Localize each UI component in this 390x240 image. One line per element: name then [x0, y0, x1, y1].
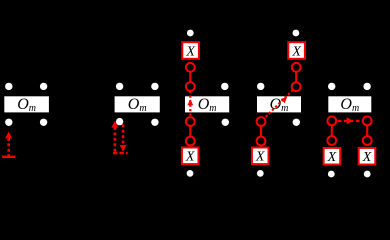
- panel 5: operator circle left-1 (bottom-left leg): [327, 117, 336, 126]
- panel 4: link upper circles: [295, 67, 297, 86]
- panel 4: qubit dot above top X: [293, 30, 300, 37]
- panel 1: measurement box O_m: [4, 96, 49, 114]
- panel 3: dashed propagation line through box (vertical): [189, 91, 191, 117]
- panel 4: operator circle lower-2: [257, 137, 266, 146]
- panel 3: operator circle lower-2: [186, 137, 195, 146]
- panel 5: dashed horizontal propagation line: [332, 120, 367, 122]
- panel 5: link left circles: [331, 121, 333, 141]
- panel 2: qubit dot bottom-right: [151, 119, 158, 126]
- panel 2: reflected arrowhead (down): [120, 145, 127, 152]
- panel 3: qubit dot below bottom X: [187, 170, 194, 177]
- panel 3: link lower circles: [189, 122, 191, 142]
- svg-text:X: X: [185, 44, 195, 59]
- panel 3: operator circle lower-1 (bottom-left leg): [186, 117, 195, 126]
- panel 5: qubit dot below right X: [364, 171, 371, 178]
- panel 4: operator circle lower-1 (bottom-left leg): [257, 117, 266, 126]
- panel 2: incoming arrowhead (up): [111, 121, 118, 128]
- panel 2: qubit dot bottom-left: [116, 118, 123, 125]
- panel 3: operator circle upper-2: [186, 63, 195, 72]
- panel 2: measurement box O_m: [115, 96, 160, 114]
- panel 5: link right circles: [366, 121, 368, 141]
- panel 5: operator circle right-2: [363, 136, 372, 145]
- panel 5: Pauli X box bottom-left: [324, 148, 341, 165]
- panel 5: operator circle left-2: [327, 136, 336, 145]
- svg-text:X: X: [362, 150, 372, 165]
- panel 4: Pauli X box bottom-left: [252, 148, 269, 165]
- panel 5: qubit dot top-right: [363, 83, 370, 90]
- panel 4: Pauli X box top-right: [288, 42, 305, 59]
- panel 4: qubit dot below bottom X: [257, 170, 264, 177]
- panel 4: qubit dot top-left: [257, 83, 264, 90]
- panel 4: link lower circles: [260, 122, 262, 142]
- panel 2: qubit dot top-right: [151, 83, 158, 90]
- panel 1: error arrow base bar: [2, 156, 15, 158]
- panel 5: propagation arrowhead (right): [347, 117, 354, 124]
- panel 3: qubit dot above top X: [187, 30, 194, 37]
- panel 5: qubit dot below left X: [328, 171, 335, 178]
- panel 4: dashed diagonal propagation line: [261, 87, 296, 122]
- panel 4: operator circle upper-1 (top-right leg): [292, 82, 301, 91]
- panel 2: reflected arrow shaft (dashed, down): [122, 124, 125, 145]
- panel 3: link upper circles: [189, 67, 191, 86]
- panel 3: operator circle upper-1 (top-left leg): [186, 82, 195, 91]
- panel 3: measurement box O_m: [185, 96, 229, 114]
- svg-text:X: X: [327, 150, 337, 165]
- panel 5: qubit dot top-left: [328, 83, 335, 90]
- panel 1: incoming error arrow shaft (dashed): [7, 138, 10, 156]
- panel 4: measurement box O_m: [257, 96, 301, 114]
- panel 1: qubit dot bottom-left: [5, 119, 12, 126]
- panel 5: measurement box O_m: [328, 96, 371, 114]
- panel 4: qubit dot bottom-right: [293, 119, 300, 126]
- panel 1: incoming error arrowhead (up): [5, 132, 12, 139]
- svg-text:X: X: [255, 150, 265, 165]
- panel 2: qubit dot top-left: [116, 83, 123, 90]
- panel 3: Pauli X box top: [182, 42, 199, 59]
- svg-text:X: X: [291, 44, 301, 59]
- panel 1: qubit dot bottom-right: [40, 119, 47, 126]
- panel 4: operator circle upper-2: [292, 63, 301, 72]
- panel 5: operator circle right-1 (bottom-right leg): [363, 117, 372, 126]
- svg-text:X: X: [185, 150, 195, 165]
- panel 4: propagation arrowhead (up-right, on diagonal): [281, 97, 287, 103]
- panel 3: propagation arrowhead (up, inside box): [187, 99, 193, 105]
- panel 2: bottom corner bar (dashed): [113, 152, 128, 154]
- panel 1: qubit dot top-left: [5, 83, 12, 90]
- panel 5: Pauli X box bottom-right: [359, 148, 376, 165]
- panel 3: Pauli X box bottom: [182, 148, 199, 165]
- panel 3: qubit dot top-right: [221, 83, 228, 90]
- panel 3: qubit dot bottom-right: [222, 119, 229, 126]
- panel 2: incoming arrow shaft (dashed, up): [114, 127, 117, 154]
- panel 1: qubit dot top-right: [40, 83, 47, 90]
